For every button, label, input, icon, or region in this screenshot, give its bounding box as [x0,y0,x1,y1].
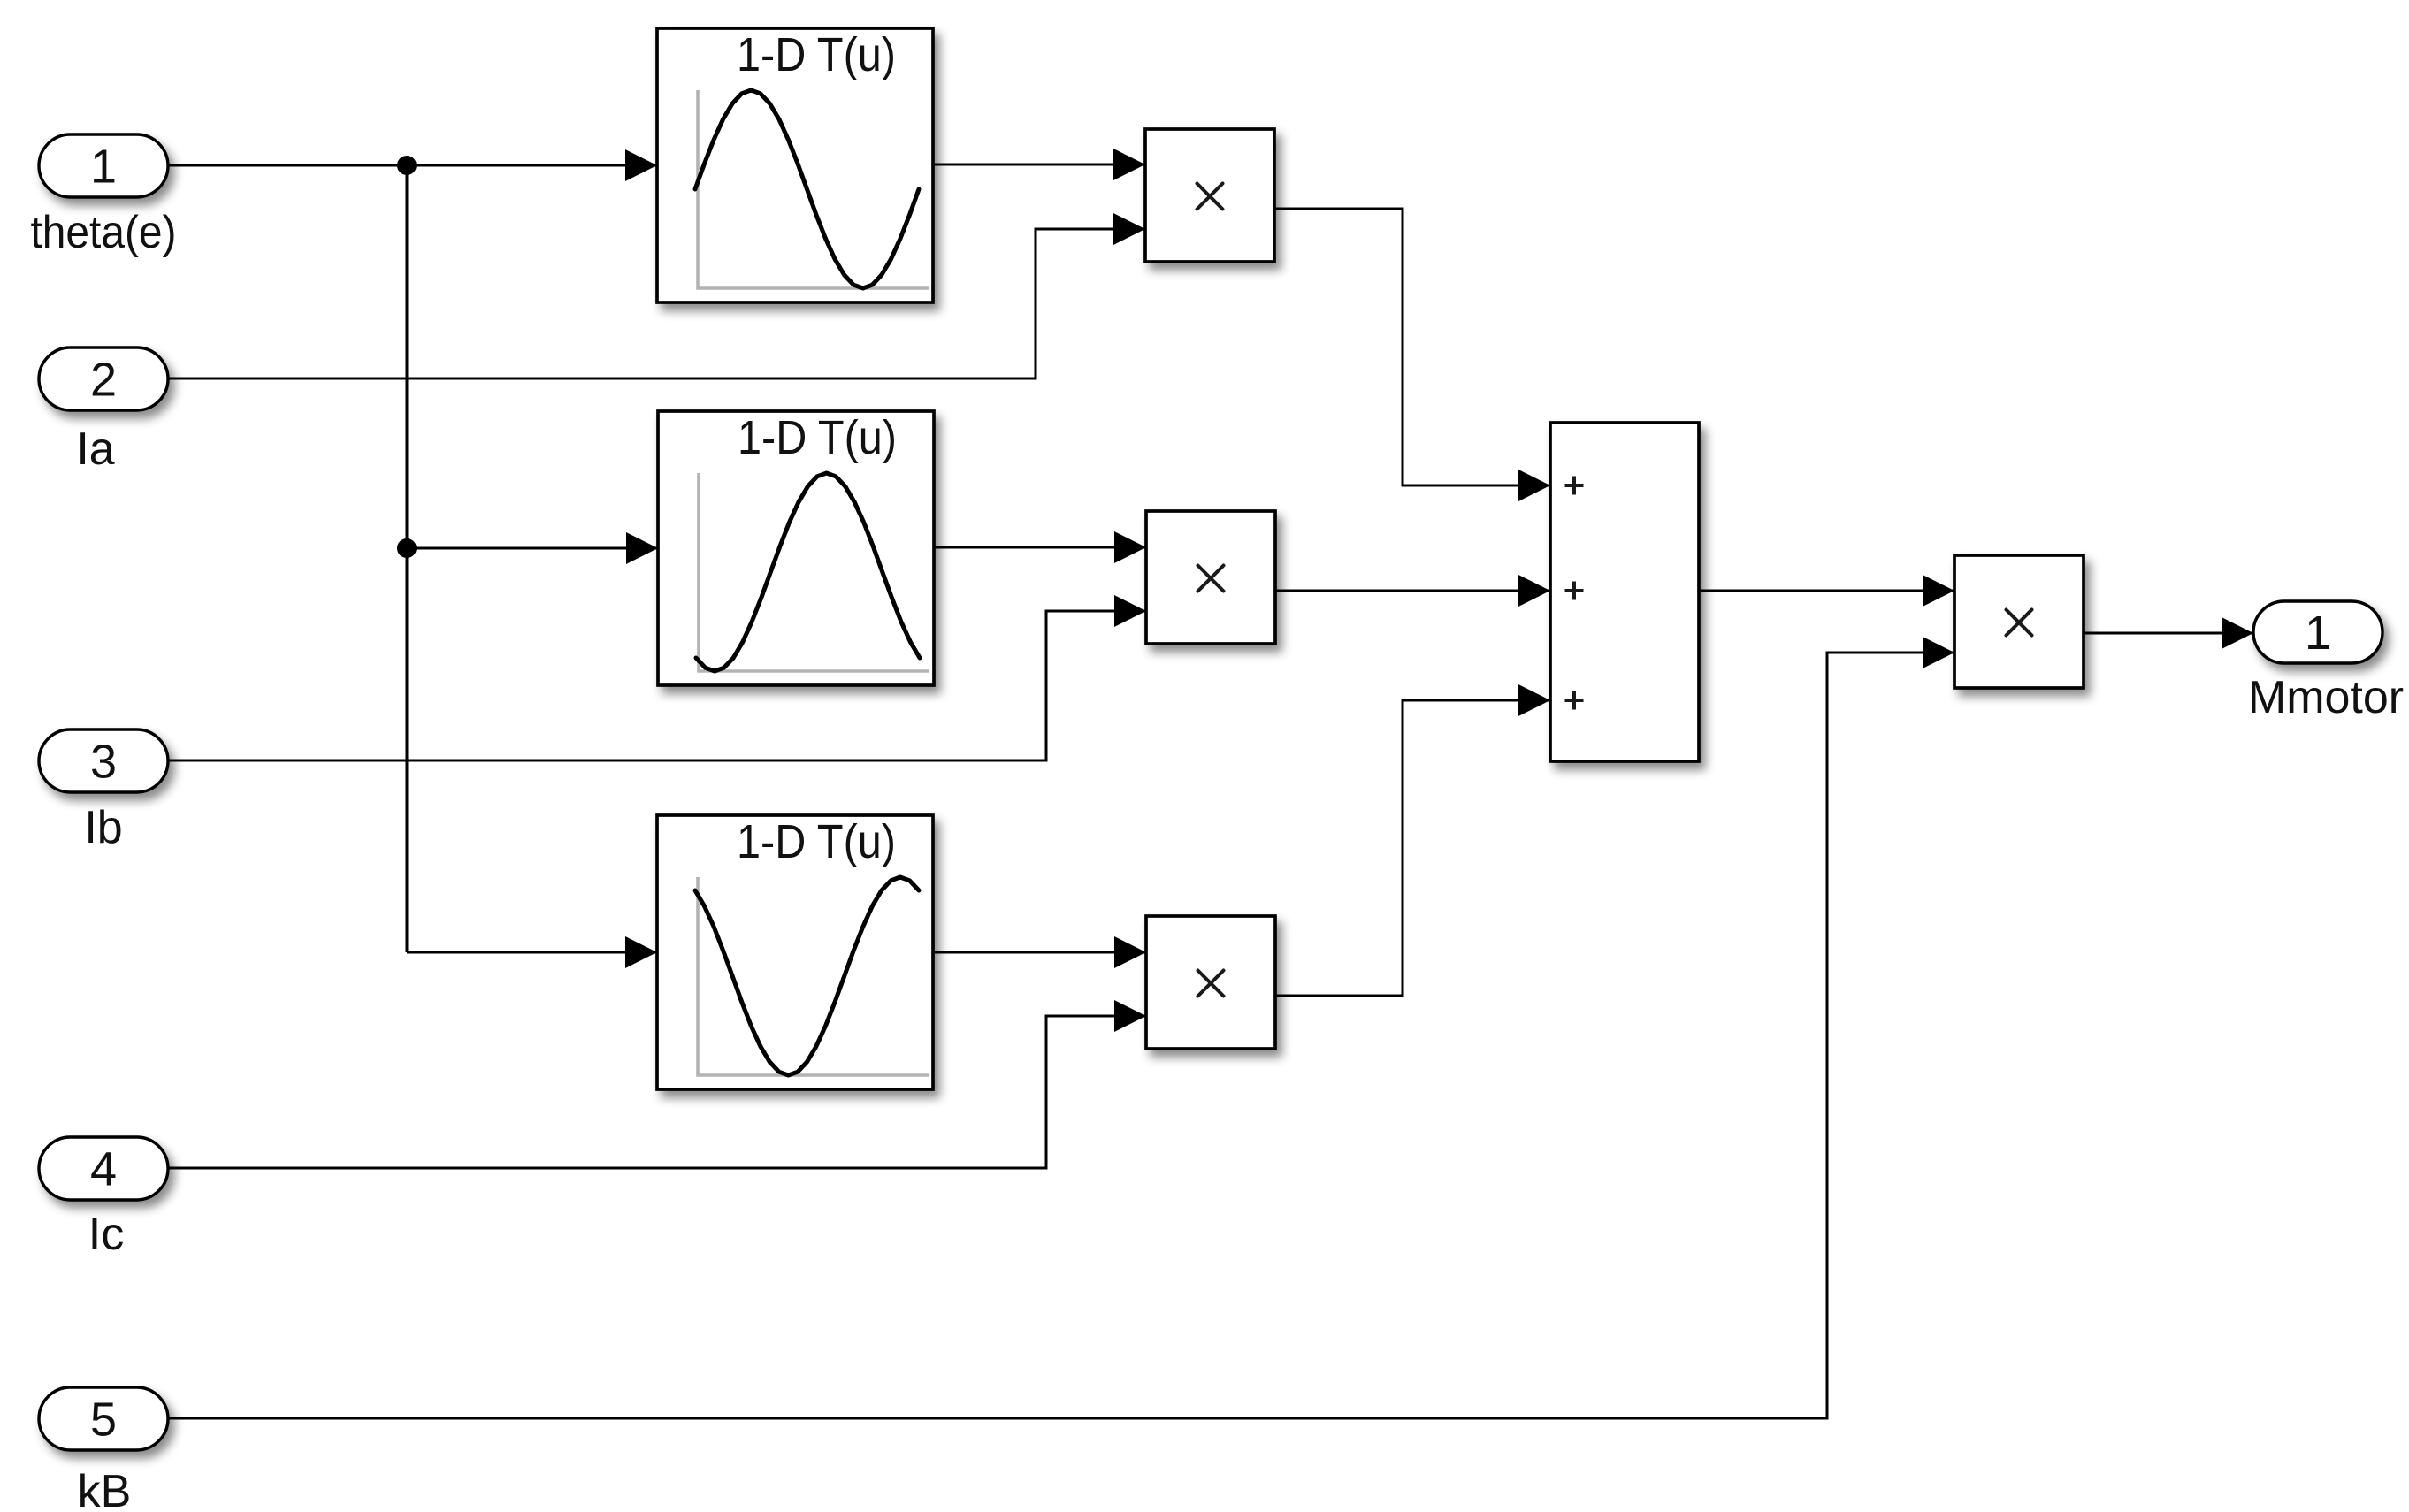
wire Ib to product P2 [168,611,1146,760]
product P4 (final) [1954,555,2084,688]
svg-text:1: 1 [90,141,117,194]
arrowhead into LUT1 [625,149,657,181]
arrowhead into P4 in2 [1923,637,1954,668]
outport 1 [2253,601,2382,663]
inport 5 [39,1387,168,1450]
arrowhead into LUT2 [626,532,658,564]
arrowhead into P3 in1 [1114,936,1146,968]
svg-text:1: 1 [2305,607,2331,660]
svg-text:4: 4 [90,1143,117,1196]
junction dot node A [397,156,417,175]
svg-text:theta(e): theta(e) [31,207,177,258]
wire theta(e) branch vertical [406,165,409,952]
svg-text:1-D T(u): 1-D T(u) [737,815,896,868]
arrowhead into P1 in1 [1113,149,1145,180]
sum block [1550,423,1699,761]
junction dot node B [397,538,417,558]
inport 2 [39,347,168,410]
arrowhead into P3 in2 [1114,1000,1146,1032]
product P2 [1146,511,1275,644]
wire sum to product P4 [1699,590,1954,592]
svg-text:Mmotor: Mmotor [2248,672,2404,723]
lookup table block LUT3 (sin theta+120) [657,815,933,1089]
wire LUT1 to product P1 [932,164,1145,166]
arrowhead into P2 in2 [1114,595,1146,627]
svg-text:Ic: Ic [88,1209,124,1260]
wire P4 to outport [2084,632,2253,635]
wire P3 to sum [1274,700,1550,996]
wire LUT3 to product P3 [935,951,1146,954]
wire kB to product P4 [168,653,1954,1418]
wire theta(e) to LUT1 [168,164,657,167]
wire LUT2 to product P2 [934,546,1146,549]
svg-text:Ia: Ia [76,424,114,475]
product P3 [1146,916,1275,1049]
wire theta(e) branch to LUT2 [407,547,658,550]
inport 4 [39,1137,168,1200]
svg-text:2: 2 [90,354,117,407]
svg-text:1-D T(u): 1-D T(u) [737,28,896,81]
wire theta(e) branch to LUT3 [407,951,657,954]
arrowhead into sum in1 [1518,470,1550,501]
arrowhead into P4 in1 [1923,575,1954,607]
lookup table block LUT1 (sin theta) [657,28,933,302]
wire P2 to sum [1275,590,1550,592]
product P1 [1145,129,1274,262]
inport 1 [39,134,168,197]
arrowhead into LUT3 [625,936,657,968]
wire Ic to product P3 [168,1016,1146,1168]
svg-text:3: 3 [90,736,117,789]
lookup table block LUT2 (sin theta-120) [658,411,934,685]
arrowhead into sum in2 [1518,575,1550,607]
inport 3 [39,729,168,792]
arrowhead into P2 in1 [1114,531,1146,563]
svg-text:Ib: Ib [84,802,122,853]
wire P1 to sum [1274,209,1550,485]
arrowhead into sum in3 [1518,684,1550,716]
svg-text:kB: kB [78,1466,132,1512]
wire Ia to product P1 [168,229,1145,378]
svg-text:1-D T(u): 1-D T(u) [738,411,897,464]
arrowhead into outport [2222,617,2253,649]
arrowhead into P1 in2 [1113,213,1145,245]
svg-text:5: 5 [90,1394,117,1447]
